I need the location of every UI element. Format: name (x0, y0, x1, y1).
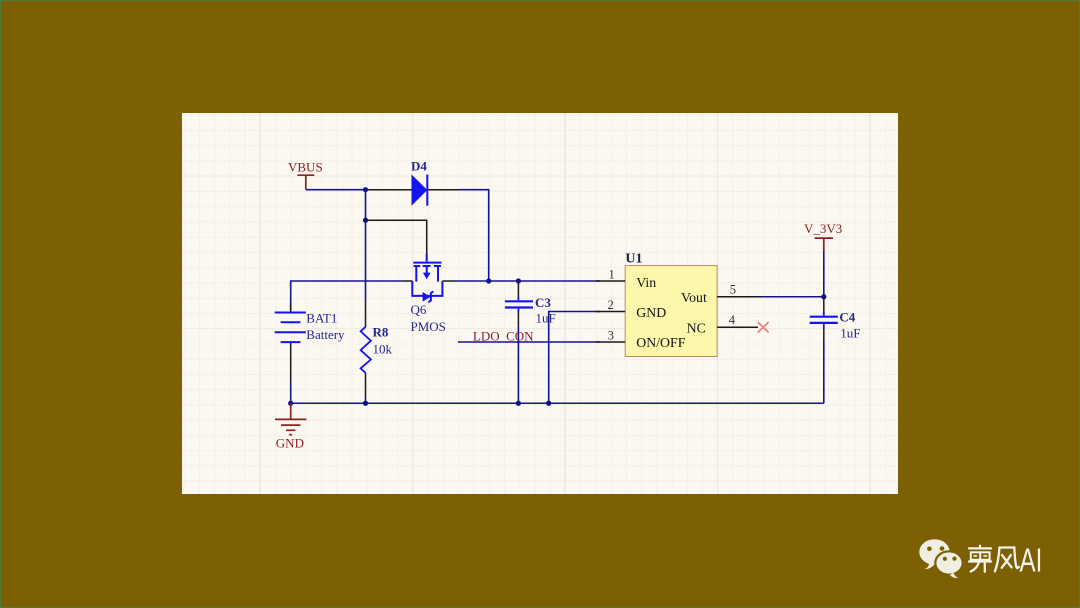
svg-text:U1: U1 (625, 251, 642, 266)
svg-text:Battery: Battery (306, 327, 345, 342)
Q6 substrate arrow (423, 273, 431, 280)
svg-text:R8: R8 (373, 325, 389, 340)
node junction gnd/C3 (516, 401, 521, 406)
svg-text:PMOS: PMOS (411, 319, 446, 334)
svg-text:D4: D4 (411, 159, 427, 174)
svg-text:ON/OFF: ON/OFF (636, 335, 685, 350)
svg-text:Vout: Vout (681, 290, 707, 305)
wire gate node down to R8 (365, 220, 367, 300)
wire R8 to gnd rail (365, 398, 367, 403)
svg-text:Vin: Vin (636, 275, 656, 290)
capacitor C3 (505, 297, 533, 313)
wire junction to D4 (pin, black) (366, 189, 412, 191)
svg-text:GND: GND (276, 435, 304, 450)
pin BAT1 top (290, 302, 292, 312)
svg-text:AI: AI (1020, 543, 1043, 580)
svg-text:1: 1 (609, 268, 615, 282)
wire D4 cathode to output rail (460, 190, 489, 281)
wire ground rail (291, 402, 824, 404)
node junction C3/rail (516, 278, 521, 283)
svg-text:C3: C3 (535, 295, 551, 310)
pin 3 ON/OFF (596, 341, 625, 343)
wire Vout to V_3V3/C4 (762, 296, 824, 298)
svg-text:1uF: 1uF (840, 326, 860, 341)
svg-text:4: 4 (729, 313, 736, 327)
ground symbol GND (275, 403, 306, 434)
pin 1 Vin (596, 280, 625, 282)
pin BAT1 bottom (290, 343, 292, 382)
wire Q6 drain to U1 Vin (455, 280, 600, 282)
diode D4 (412, 175, 428, 206)
wire U1 GND pin2 to gnd rail (549, 312, 600, 404)
logo small bubble eyes (943, 557, 957, 561)
wire C3 to gnd rail (517, 326, 519, 403)
svg-text:BAT1: BAT1 (306, 311, 337, 326)
wire C4 to gnd rail (823, 341, 825, 403)
node junction Vout/C4 (821, 294, 826, 299)
Q6 body diode triangle (423, 292, 431, 302)
svg-text:C4: C4 (839, 309, 855, 324)
svg-text:LDO_CON: LDO_CON (473, 328, 534, 343)
wire battery rail (left) (291, 281, 404, 311)
wire V_3V3 to junction (823, 252, 825, 297)
svg-text:3: 3 (608, 329, 614, 343)
wire gate node to Q6 gate (366, 220, 427, 256)
svg-text:NC: NC (687, 321, 706, 336)
pin C4 bottom (823, 328, 825, 341)
pin 2 GND (596, 311, 625, 313)
wire VBUS to D4 anode (306, 189, 367, 191)
battery BAT1 (275, 313, 306, 343)
pin C4 top (823, 297, 825, 312)
logo glyph FENG (wind) (995, 548, 1019, 572)
logo WeChat icon small bubble (935, 551, 962, 578)
pin C3 top (517, 281, 519, 297)
power symbol VBUS (297, 175, 314, 190)
svg-text:1uF: 1uF (536, 311, 556, 326)
pin C3 bottom (517, 312, 519, 326)
pin Q6 source (404, 280, 412, 282)
node junction gate/R8 (363, 218, 368, 223)
svg-text:GND: GND (636, 305, 666, 320)
svg-text:V_3V3: V_3V3 (804, 221, 842, 236)
no-connect X on pin 4 (758, 322, 769, 333)
pin R8 top (365, 300, 367, 327)
transistor Q6 PMOS (412, 254, 442, 302)
svg-text:2: 2 (608, 298, 614, 312)
logo WeChat icon big bubble (919, 539, 949, 569)
wire junction down to gate node (365, 190, 367, 221)
IC U1 body (625, 266, 717, 357)
schematic sheet grid (182, 113, 898, 494)
logo big bubble eyes (927, 546, 944, 551)
node junction gnd/U1 (546, 401, 551, 406)
pin R8 bottom (365, 373, 367, 398)
svg-text:VBUS: VBUS (288, 160, 323, 175)
svg-text:5: 5 (730, 282, 736, 296)
pin Q6 drain (442, 280, 455, 282)
svg-text:Q6: Q6 (411, 302, 427, 317)
node junction gnd/R8 (363, 401, 368, 406)
node junction gnd/BAT1 (288, 401, 293, 406)
wire BAT1 to gnd rail (290, 382, 292, 403)
power symbol V_3V3 (815, 238, 833, 251)
pin D4 cathode (428, 189, 460, 191)
node junction D4/rail (486, 278, 491, 283)
pin 4 NC (717, 326, 758, 328)
capacitor C4 (810, 312, 838, 328)
logo glyph JI (rain radical over qi) (969, 546, 991, 572)
wire LDO_CON to U1 ON/OFF (458, 341, 600, 343)
resistor R8 (361, 327, 371, 373)
pin 5 Vout (717, 296, 762, 298)
svg-text:10k: 10k (373, 342, 393, 357)
node junction VBUS/gate (363, 187, 368, 192)
